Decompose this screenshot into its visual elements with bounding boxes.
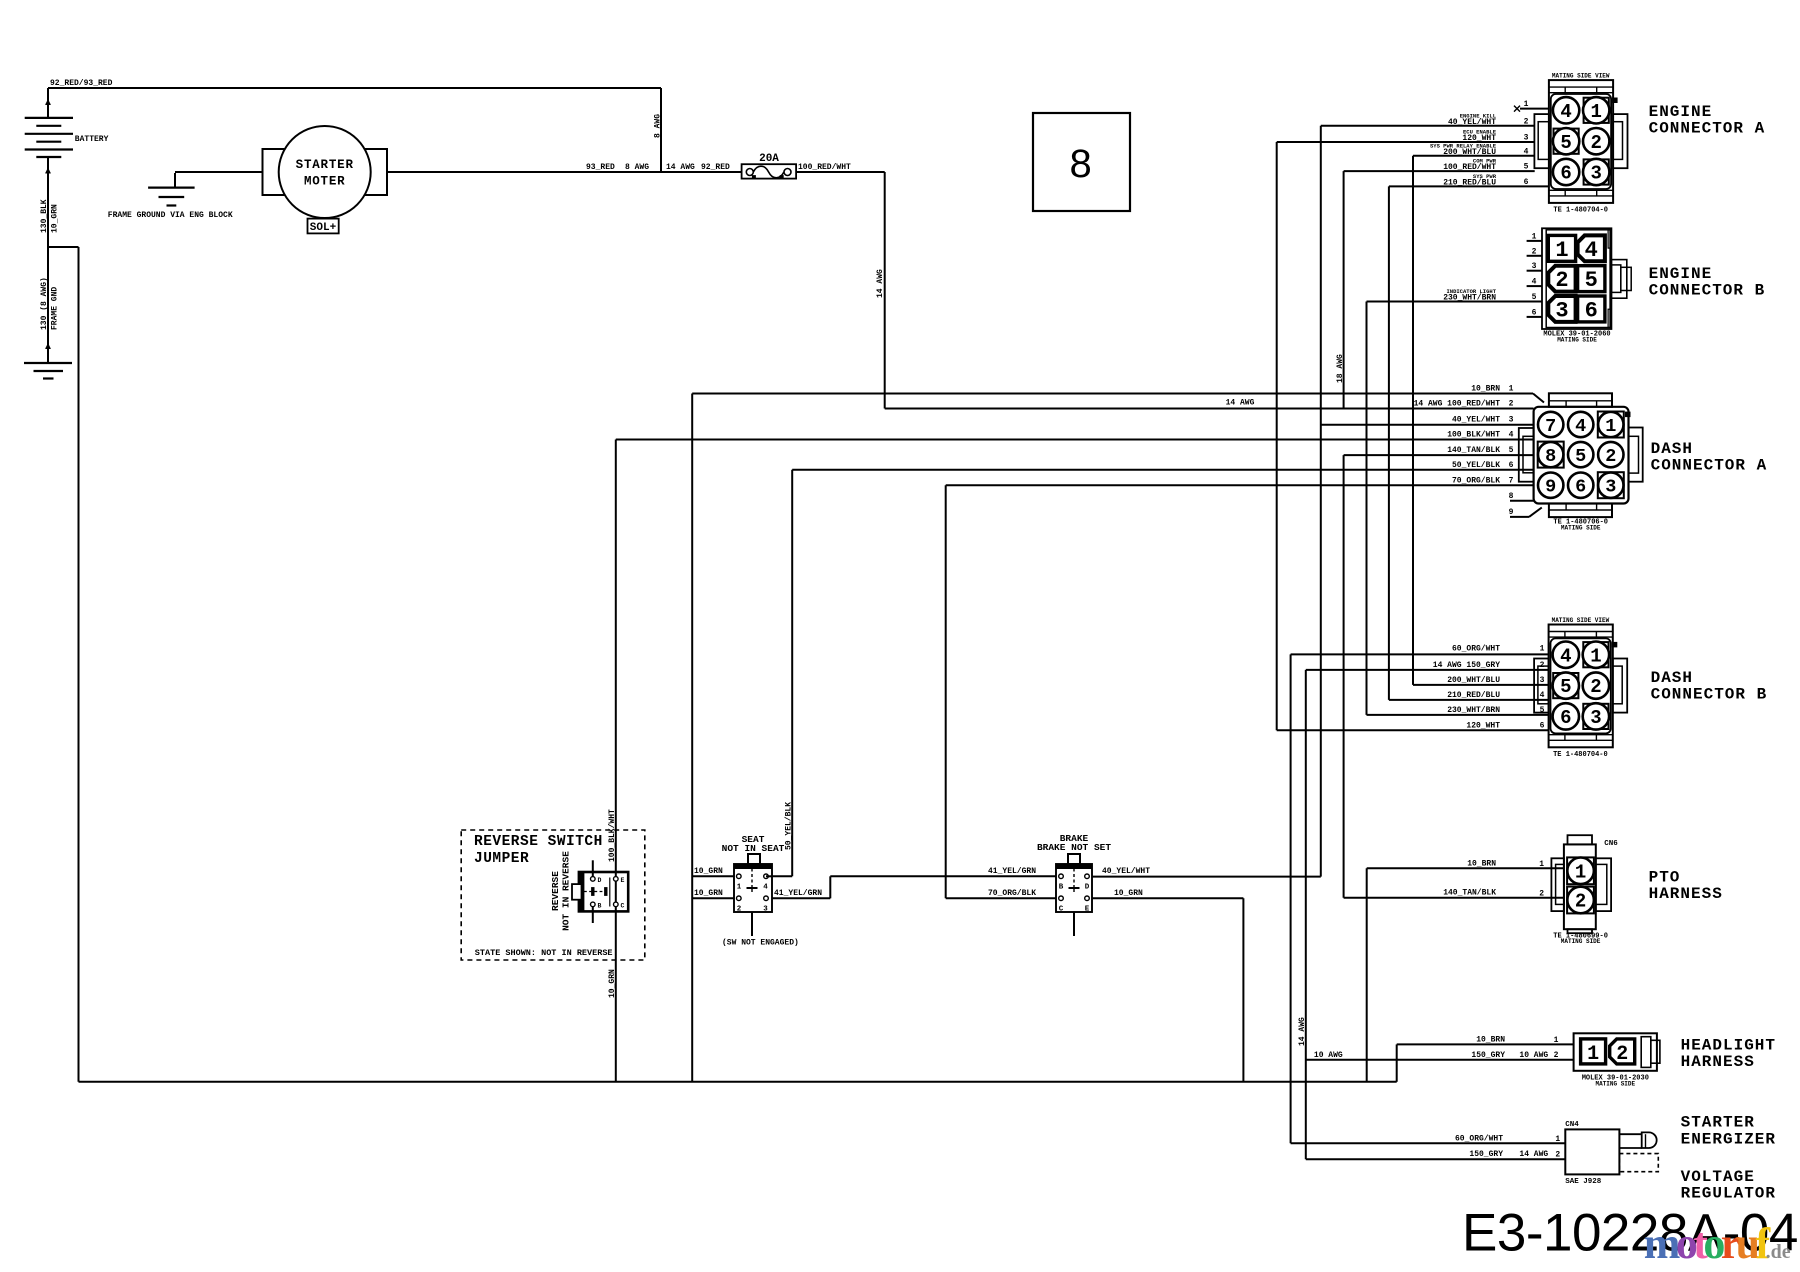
- svg-text:1: 1: [1524, 100, 1529, 109]
- svg-text:8: 8: [1069, 142, 1091, 186]
- svg-text:8: 8: [1545, 446, 1556, 467]
- svg-text:STATE SHOWN: NOT IN REVERSE: STATE SHOWN: NOT IN REVERSE: [475, 948, 613, 958]
- svg-text:3: 3: [1532, 262, 1537, 271]
- svg-text:200_WHT/BLU: 200_WHT/BLU: [1447, 676, 1500, 685]
- wire 50_YEL/BLK net: [792, 469, 1533, 471]
- wire reverse switch bottom stub: [592, 907, 594, 923]
- ground frame GND2: [174, 173, 176, 188]
- svg-text:(SW NOT ENGAGED): (SW NOT ENGAGED): [722, 939, 799, 948]
- wire 8 AWG riser: [660, 88, 662, 172]
- connector J4 DASH CONNECTOR B: [1549, 625, 1613, 748]
- wire seat bottom stub: [751, 912, 753, 936]
- svg-text:STARTER: STARTER: [1681, 1114, 1755, 1132]
- wire ground to starter: [175, 171, 263, 173]
- svg-text:14 AWG: 14 AWG: [1519, 1150, 1548, 1159]
- svg-text:14 AWG: 14 AWG: [876, 269, 885, 298]
- wire 14 AWG riser down: [884, 172, 886, 409]
- svg-text:HEADLIGHT: HEADLIGHT: [1681, 1036, 1776, 1054]
- svg-text:41_YEL/GRN: 41_YEL/GRN: [774, 889, 822, 898]
- wire starter to fuse: [387, 171, 742, 173]
- svg-text:3: 3: [1605, 477, 1616, 498]
- svg-text:10_GRN: 10_GRN: [694, 867, 723, 876]
- svg-text:6: 6: [1540, 721, 1545, 730]
- svg-text:2: 2: [1590, 132, 1601, 154]
- svg-text:VOLTAGE: VOLTAGE: [1681, 1168, 1755, 1186]
- wire PTO ground riser: [1366, 868, 1368, 1082]
- pin 2 engine B stub: [1527, 255, 1542, 257]
- svg-text:18 AWG: 18 AWG: [1336, 354, 1345, 383]
- svg-text:6: 6: [1575, 477, 1586, 498]
- svg-text:14 AWG 100_RED/WHT: 14 AWG 100_RED/WHT: [1414, 400, 1501, 409]
- svg-text:1: 1: [1539, 860, 1544, 869]
- svg-text:8 AWG: 8 AWG: [654, 114, 663, 138]
- svg-text:93_RED: 93_RED: [586, 163, 615, 172]
- svg-text:ENGINE: ENGINE: [1649, 103, 1713, 121]
- svg-text:5: 5: [1509, 446, 1514, 455]
- wire seat pin2 branch: [692, 897, 734, 899]
- brake switch S2: [1068, 854, 1080, 864]
- svg-text:230_WHT/BRN: 230_WHT/BRN: [1447, 706, 1500, 715]
- svg-text:3: 3: [1509, 416, 1514, 425]
- svg-text:NOT IN REVERSE: NOT IN REVERSE: [561, 851, 572, 931]
- wire 41_YEL/GRN net: [772, 897, 830, 899]
- svg-text:1: 1: [1590, 101, 1601, 123]
- svg-text:MATING SIDE VIEW: MATING SIDE VIEW: [1552, 617, 1610, 624]
- svg-text:ENGINE: ENGINE: [1649, 265, 1713, 283]
- wire 140_TAN/BLK net: [1343, 455, 1345, 898]
- svg-text:DASH: DASH: [1651, 440, 1693, 458]
- wire seat pin4 jumper: [766, 875, 772, 877]
- wire battery negative lead: [47, 157, 49, 363]
- svg-text:70_ORG/BLK: 70_ORG/BLK: [1452, 476, 1500, 485]
- seat switch S1: [748, 854, 760, 864]
- svg-text:JUMPER: JUMPER: [474, 851, 529, 867]
- svg-text:1: 1: [1540, 644, 1545, 653]
- svg-text:3: 3: [1524, 134, 1529, 143]
- svg-text:2: 2: [1524, 117, 1529, 126]
- svg-text:4: 4: [1540, 691, 1545, 700]
- wire ground bus: [79, 1081, 1397, 1083]
- svg-text:230_WHT/BRN: 230_WHT/BRN: [1443, 293, 1496, 302]
- connector J1 ENGINE CONNECTOR A: [1549, 80, 1613, 203]
- svg-text:14 AWG: 14 AWG: [1298, 1017, 1307, 1046]
- wire frame ground branch: [48, 246, 79, 248]
- svg-text:10 AWG: 10 AWG: [1314, 1051, 1343, 1060]
- svg-text:1: 1: [1554, 1036, 1559, 1045]
- wire brake E to ground: [1092, 897, 1243, 899]
- svg-text:100_RED/WHT: 100_RED/WHT: [1443, 163, 1496, 172]
- svg-text:1: 1: [1555, 238, 1568, 263]
- svg-text:6: 6: [1560, 707, 1571, 729]
- svg-text:4: 4: [1509, 431, 1514, 440]
- svg-text:CN6: CN6: [1604, 840, 1618, 848]
- svg-text:9: 9: [1509, 508, 1514, 517]
- svg-text:41_YEL/GRN: 41_YEL/GRN: [988, 867, 1036, 876]
- svg-text:2: 2: [1539, 889, 1544, 898]
- battery BAT1: [25, 117, 73, 119]
- svg-text:210_RED/BLU: 210_RED/BLU: [1443, 179, 1496, 188]
- wire 150_GRY headlight branch: [1306, 1059, 1574, 1061]
- svg-text:4: 4: [1585, 238, 1598, 263]
- svg-text:140_TAN/BLK: 140_TAN/BLK: [1443, 889, 1496, 898]
- wire 10_BRN dash A pin1: [692, 393, 1533, 395]
- svg-text:14 AWG: 14 AWG: [1226, 399, 1255, 408]
- connector J3 DASH CONNECTOR A: [1549, 393, 1612, 407]
- connector CN5 HEADLIGHT HARNESS: [1574, 1033, 1657, 1071]
- svg-text:CONNECTOR B: CONNECTOR B: [1649, 282, 1766, 300]
- svg-text:4: 4: [1524, 147, 1529, 156]
- svg-text:40_YEL/WHT: 40_YEL/WHT: [1452, 416, 1500, 425]
- svg-text:10_GRN: 10_GRN: [51, 204, 60, 233]
- wire 150_GRY net: [1305, 670, 1307, 1159]
- svg-text:2: 2: [1616, 1043, 1628, 1066]
- svg-text:140_TAN/BLK: 140_TAN/BLK: [1447, 446, 1500, 455]
- svg-text:20A: 20A: [759, 153, 779, 165]
- svg-text:14 AWG 150_GRY: 14 AWG 150_GRY: [1433, 661, 1500, 670]
- svg-text:6: 6: [1532, 308, 1537, 317]
- starter energizer CN4: [1565, 1129, 1619, 1174]
- svg-text:92_RED: 92_RED: [701, 163, 730, 172]
- svg-text:130_BLK: 130_BLK: [40, 199, 49, 233]
- pin 3 engine B stub: [1527, 270, 1542, 272]
- svg-text:C: C: [1059, 906, 1064, 914]
- pin 1 engine A stub: [1520, 108, 1549, 110]
- svg-text:2: 2: [1509, 400, 1514, 409]
- svg-text:150_GRY: 150_GRY: [1469, 1150, 1503, 1159]
- svg-text:70_ORG/BLK: 70_ORG/BLK: [988, 889, 1036, 898]
- svg-text:3: 3: [1590, 163, 1601, 185]
- svg-text:10_BRN: 10_BRN: [1467, 860, 1496, 869]
- svg-text:7: 7: [1509, 476, 1514, 485]
- svg-text:MATING SIDE: MATING SIDE: [1595, 1080, 1635, 1087]
- svg-text:60_ORG/WHT: 60_ORG/WHT: [1452, 644, 1500, 653]
- wire seat pin1 branch: [692, 875, 734, 877]
- svg-text:1: 1: [1555, 1135, 1560, 1144]
- wire 100_RED/WHT engine branch: [1343, 171, 1345, 408]
- svg-text:4: 4: [763, 884, 768, 892]
- connector CN6 PTO HARNESS: [1568, 835, 1593, 844]
- wire 70_ORG/BLK net: [946, 484, 1534, 486]
- svg-text:E: E: [621, 877, 625, 884]
- svg-text:2: 2: [1590, 676, 1601, 698]
- svg-text:FRAME GROUND VIA ENG BLOCK: FRAME GROUND VIA ENG BLOCK: [108, 211, 233, 220]
- svg-text:10_GRN: 10_GRN: [1114, 889, 1143, 898]
- svg-text:4: 4: [1532, 278, 1537, 287]
- svg-text:HARNESS: HARNESS: [1681, 1053, 1755, 1071]
- label SOL+ terminal: [308, 219, 339, 234]
- svg-text:5: 5: [1524, 163, 1529, 172]
- svg-text:D: D: [1085, 884, 1090, 892]
- svg-text:2: 2: [1555, 1151, 1560, 1160]
- svg-text:60_ORG/WHT: 60_ORG/WHT: [1455, 1134, 1503, 1143]
- svg-text:FRAME GND: FRAME GND: [51, 287, 60, 330]
- svg-text:4: 4: [1560, 101, 1571, 123]
- svg-text:2: 2: [1605, 446, 1616, 467]
- svg-text:150_GRY: 150_GRY: [1471, 1051, 1505, 1060]
- svg-text:6: 6: [1524, 178, 1529, 187]
- pin 9 dash A stub: [1510, 516, 1529, 518]
- svg-text:REGULATOR: REGULATOR: [1681, 1185, 1776, 1203]
- svg-text:MATING SIDE VIEW: MATING SIDE VIEW: [1552, 73, 1610, 80]
- svg-text:TE 1-480704-0: TE 1-480704-0: [1553, 751, 1608, 759]
- wire headlight ground riser: [1396, 1044, 1398, 1081]
- pin 8 dash A stub: [1510, 500, 1534, 502]
- fuse F1 20A: [742, 164, 797, 178]
- svg-text:14 AWG: 14 AWG: [666, 163, 695, 172]
- wire battery positive lead: [47, 88, 49, 118]
- svg-text:CN4: CN4: [1565, 1121, 1579, 1129]
- svg-text:5: 5: [1585, 268, 1598, 293]
- svg-text:CONNECTOR A: CONNECTOR A: [1651, 457, 1768, 475]
- svg-text:REVERSE SWITCH: REVERSE SWITCH: [474, 834, 603, 850]
- svg-text:40_YEL/WHT: 40_YEL/WHT: [1448, 118, 1496, 127]
- reverse switch S3: [579, 872, 628, 911]
- svg-text:4: 4: [1560, 645, 1571, 667]
- svg-text:200_WHT/BLU: 200_WHT/BLU: [1443, 148, 1496, 157]
- svg-text:1: 1: [1509, 385, 1514, 394]
- svg-text:BRAKE NOT SET: BRAKE NOT SET: [1037, 842, 1111, 853]
- wire 200_WHT/BLU net: [1412, 156, 1414, 685]
- svg-text:1: 1: [1587, 1043, 1599, 1066]
- svg-text:6: 6: [1560, 163, 1571, 185]
- reverse switch jumper box: [461, 830, 645, 960]
- svg-text:D: D: [598, 877, 602, 884]
- svg-text:E: E: [1085, 906, 1090, 914]
- svg-text:3: 3: [763, 906, 768, 914]
- svg-text:2: 2: [1554, 1051, 1559, 1060]
- svg-text:5: 5: [1560, 132, 1571, 154]
- svg-text:10_GRN: 10_GRN: [608, 969, 617, 998]
- wire 120_WHT net: [1276, 142, 1278, 730]
- svg-text:100_RED/WHT: 100_RED/WHT: [798, 163, 851, 172]
- svg-text:1: 1: [1575, 861, 1586, 883]
- svg-text:DASH: DASH: [1651, 669, 1693, 687]
- wire 100_BLK/WHT net: [616, 439, 1534, 441]
- svg-text:10_BRN: 10_BRN: [1476, 1035, 1505, 1044]
- svg-text:7: 7: [1545, 416, 1556, 437]
- svg-text:SOL+: SOL+: [310, 222, 337, 234]
- svg-text:1: 1: [737, 884, 742, 892]
- wire fuse to riser: [796, 171, 885, 173]
- svg-text:MATING SIDE: MATING SIDE: [1557, 337, 1597, 344]
- svg-text:2: 2: [1532, 247, 1537, 256]
- svg-text:TE 1-480704-0: TE 1-480704-0: [1553, 207, 1608, 215]
- svg-text:B: B: [1059, 884, 1064, 892]
- svg-text:10 AWG: 10 AWG: [1519, 1051, 1548, 1060]
- svg-text:SAE J928: SAE J928: [1565, 1178, 1602, 1186]
- svg-text:MOTER: MOTER: [304, 174, 346, 188]
- svg-text:210_RED/BLU: 210_RED/BLU: [1447, 691, 1500, 700]
- svg-text:2: 2: [737, 906, 742, 914]
- pin 4 engine B stub: [1527, 285, 1542, 287]
- svg-text:REVERSE: REVERSE: [550, 871, 561, 911]
- pin 1 engine B stub: [1527, 240, 1542, 242]
- svg-text:BATTERY: BATTERY: [75, 135, 109, 144]
- starter motor M1: [263, 149, 297, 195]
- svg-text:100_BLK/WHT: 100_BLK/WHT: [1447, 431, 1500, 440]
- connector J2 ENGINE CONNECTOR B: [1542, 228, 1611, 329]
- svg-text:3: 3: [1590, 707, 1601, 729]
- wire brake bottom stub: [1073, 912, 1075, 936]
- svg-text:6: 6: [1585, 298, 1598, 323]
- svg-text:9: 9: [1545, 477, 1556, 498]
- svg-text:2: 2: [1540, 661, 1545, 670]
- svg-text:5: 5: [1540, 706, 1545, 715]
- svg-text:MATING SIDE: MATING SIDE: [1561, 525, 1601, 532]
- svg-text:PTO: PTO: [1649, 868, 1681, 886]
- svg-text:NOT IN SEAT: NOT IN SEAT: [722, 843, 785, 854]
- svg-text:40_YEL/WHT: 40_YEL/WHT: [1102, 867, 1150, 876]
- svg-text:1: 1: [1590, 645, 1601, 667]
- sheet number 8 box: [1033, 113, 1130, 211]
- svg-text:ENERGIZER: ENERGIZER: [1681, 1130, 1776, 1148]
- svg-text:2: 2: [1575, 891, 1586, 913]
- svg-text:2: 2: [1555, 268, 1568, 293]
- svg-text:C: C: [621, 903, 625, 910]
- voltage regulator dashed box: [1619, 1154, 1658, 1172]
- svg-text:10_GRN: 10_GRN: [694, 889, 723, 898]
- ground chassis GND1: [24, 362, 72, 364]
- svg-text:STARTER: STARTER: [296, 158, 354, 172]
- svg-text:5: 5: [1532, 293, 1537, 302]
- svg-text:100_BLK/WHT: 100_BLK/WHT: [608, 809, 617, 862]
- svg-text:CONNECTOR A: CONNECTOR A: [1649, 120, 1766, 138]
- wire 210_RED/BLU net: [1388, 186, 1390, 700]
- svg-text:1: 1: [1532, 232, 1537, 241]
- svg-text:3: 3: [1555, 298, 1568, 323]
- wire 92_RED/93_RED top bus: [48, 87, 661, 89]
- svg-text:92_RED/93_RED: 92_RED/93_RED: [50, 79, 113, 88]
- svg-text:3: 3: [1540, 676, 1545, 685]
- wire 60_ORG/WHT net: [1290, 654, 1292, 1143]
- svg-text:10_BRN: 10_BRN: [1471, 385, 1500, 394]
- svg-text:6: 6: [1509, 461, 1514, 470]
- svg-text:4: 4: [1575, 416, 1586, 437]
- wire 40_YEL/WHT net: [1320, 126, 1322, 877]
- svg-text:50_YEL/BLK: 50_YEL/BLK: [1452, 461, 1500, 470]
- svg-text:HARNESS: HARNESS: [1649, 885, 1723, 903]
- pin 6 engine B stub: [1527, 316, 1542, 318]
- svg-text:8 AWG: 8 AWG: [625, 163, 649, 172]
- svg-text:5: 5: [1560, 676, 1571, 698]
- svg-text:5: 5: [1575, 446, 1586, 467]
- svg-text:B: B: [598, 903, 602, 910]
- svg-text:MATING SIDE: MATING SIDE: [1561, 938, 1601, 945]
- svg-text:CONNECTOR B: CONNECTOR B: [1651, 686, 1768, 704]
- svg-text:130 (8 AWG): 130 (8 AWG): [40, 277, 49, 330]
- svg-text:50_YEL/BLK: 50_YEL/BLK: [785, 802, 794, 850]
- wire reverse switch top stub: [592, 860, 594, 876]
- svg-text:120_WHT: 120_WHT: [1466, 721, 1500, 730]
- wire 100_RED/WHT to dash A pin2: [885, 408, 1534, 410]
- wire 230_WHT/BRN net: [1366, 302, 1368, 715]
- svg-text:8: 8: [1509, 492, 1514, 501]
- svg-text:1: 1: [1605, 416, 1616, 437]
